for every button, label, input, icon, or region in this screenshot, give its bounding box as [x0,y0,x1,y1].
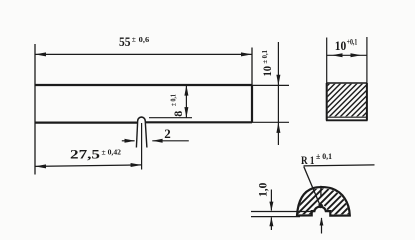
section view square hatched [326,37,368,121]
detail view dome hatched [297,187,350,216]
svg-text:0,6: 0,6 [139,35,150,44]
svg-text:10: 10 [260,66,274,77]
slot with rounded top [138,117,146,121]
dimension 10+0,1 section [327,37,367,57]
svg-text:27,5: 27,5 [70,147,100,161]
detail centreline arrow below [320,217,324,233]
svg-text:±: ± [132,35,136,44]
svg-text:1,0: 1,0 [257,182,269,197]
svg-text:± 0,42: ± 0,42 [102,148,122,157]
svg-text:± 0,1: ± 0,1 [316,152,332,161]
leader R1±0,1 [301,152,375,208]
slot centre extension line [141,123,143,170]
extension line left edge [34,44,36,175]
svg-text:± 0,1: ± 0,1 [169,94,178,106]
svg-text:8: 8 [171,111,185,117]
slot wall extension lines [136,121,137,148]
section hatching [288,56,415,125]
dimension 1,0 detail [257,182,273,230]
part outline main view [35,85,252,123]
svg-text:2: 2 [164,127,171,141]
extension line right edge top [251,48,253,86]
detail apex centreline tick [320,186,322,196]
detail hatching [252,175,387,240]
svg-text:R 1: R 1 [301,153,315,167]
dimension 8±0,1 inside [149,85,192,118]
detail base lines [251,211,314,213]
dimension 10±0,1 right side [252,42,289,145]
svg-text:+0,1: +0,1 [347,37,358,46]
dimension 27,5±0,42 [35,147,142,168]
dimension 55±0,6 [35,35,252,57]
dimension 2 slot width [122,127,189,143]
svg-text:± 0,1: ± 0,1 [260,50,269,64]
svg-text:55: 55 [119,35,131,49]
svg-text:10: 10 [335,38,347,53]
